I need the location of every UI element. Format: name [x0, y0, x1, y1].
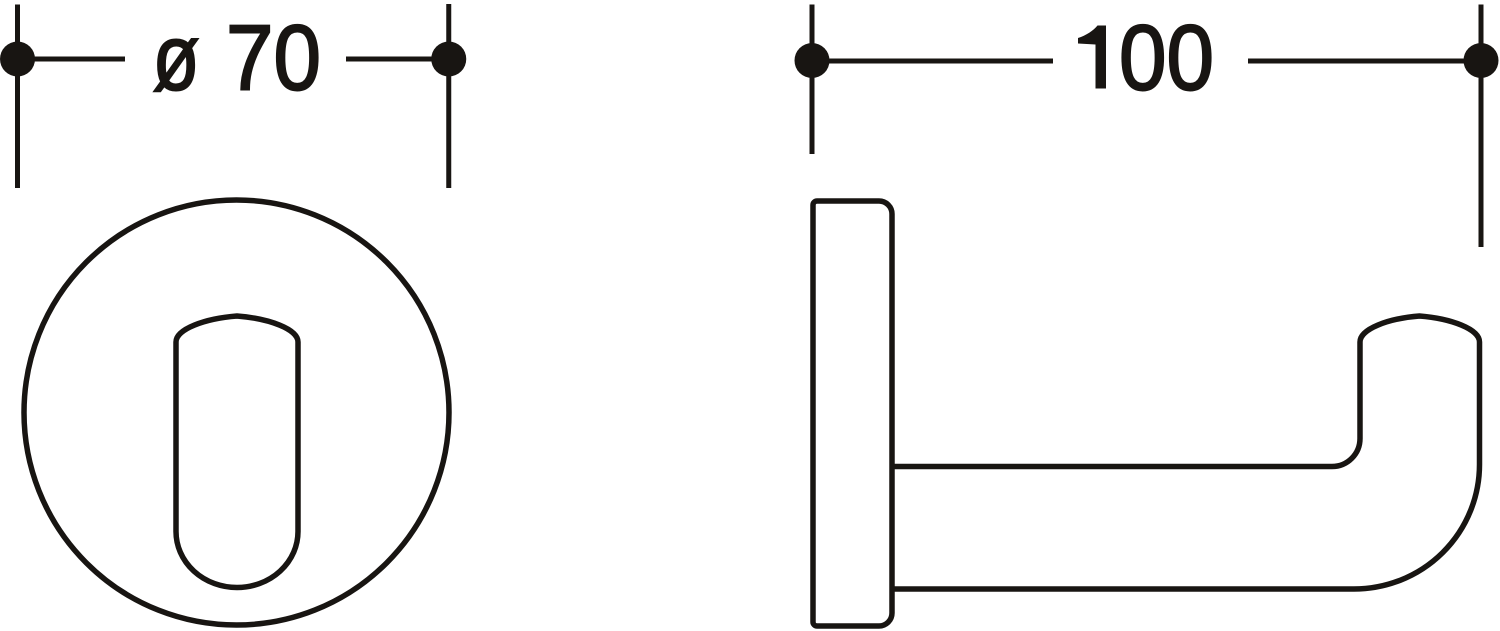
dimension dot right (ø 70)	[431, 42, 466, 77]
dimension dot left (ø 70)	[0, 42, 35, 77]
extension line left (ø 70)	[15, 5, 20, 189]
dimension line left segment (ø 70)	[18, 57, 126, 62]
dimension text digit "1" of "100"	[1078, 26, 1106, 89]
dimension line right segment (ø 70)	[346, 57, 449, 62]
extension line left (100)	[810, 5, 815, 155]
front view hook silhouette (keyhole shape)	[176, 316, 298, 588]
svg-text:00: 00	[1119, 6, 1214, 110]
side view wall plate	[813, 201, 892, 626]
dimension line left segment (100)	[812, 59, 1053, 64]
svg-text:70: 70	[226, 6, 321, 110]
dimension dot left (100)	[795, 43, 830, 78]
extension line right (ø 70)	[446, 4, 451, 188]
dimension line right segment (100)	[1248, 59, 1481, 64]
extension line right (100)	[1479, 5, 1484, 248]
side view hook arm and tip	[894, 316, 1480, 589]
front view circle (escutcheon plate ø 70)	[24, 200, 449, 625]
dimension dot right (100)	[1464, 43, 1499, 78]
svg-text:ø: ø	[153, 6, 200, 110]
